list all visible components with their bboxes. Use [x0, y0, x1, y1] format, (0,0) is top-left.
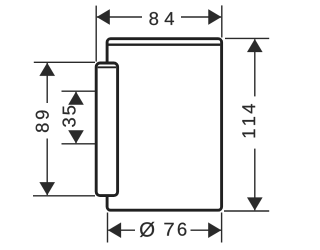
label 114	[242, 104, 255, 137]
arrowhead 84 left	[97, 9, 110, 24]
dimension line 35	[75, 92, 77, 143]
dimension line 84	[97, 16, 221, 18]
arrowhead diameter 76 left	[108, 223, 121, 238]
arrowhead diameter 76 right	[208, 223, 221, 238]
arrowhead 114 bottom	[247, 198, 262, 211]
wall plate	[96, 63, 117, 196]
arrowhead 114 top	[247, 39, 262, 52]
extension line 89 bottom	[33, 195, 95, 197]
tumbler body outline	[107, 39, 222, 211]
dimension line 89	[46, 63, 48, 195]
extension line 114 top	[225, 37, 269, 39]
arrowhead 35 top	[68, 92, 83, 105]
extension line 84 right	[221, 5, 223, 37]
dimension line 114	[254, 39, 256, 210]
arrowhead 84 right	[208, 9, 221, 24]
extension line 89 top	[34, 61, 95, 63]
arrowhead 89 bottom	[40, 182, 55, 195]
tumbler rim line	[108, 44, 220, 46]
label 89	[36, 110, 49, 132]
arrowhead 35 bottom	[68, 130, 83, 143]
arrowhead 89 top	[40, 63, 55, 76]
extension line 35 top	[62, 90, 96, 92]
extension line 114 bottom	[224, 210, 269, 212]
label 35	[62, 106, 75, 127]
extension line 35 bottom	[62, 143, 96, 145]
label 84	[149, 12, 174, 25]
label diameter 76	[140, 222, 186, 237]
extension line 84 left	[95, 6, 97, 62]
extension line diameter 76 left	[107, 213, 109, 243]
wall plate seam line	[98, 66, 116, 68]
dimension line diameter 76	[108, 229, 221, 231]
extension line diameter 76 right	[221, 213, 223, 243]
